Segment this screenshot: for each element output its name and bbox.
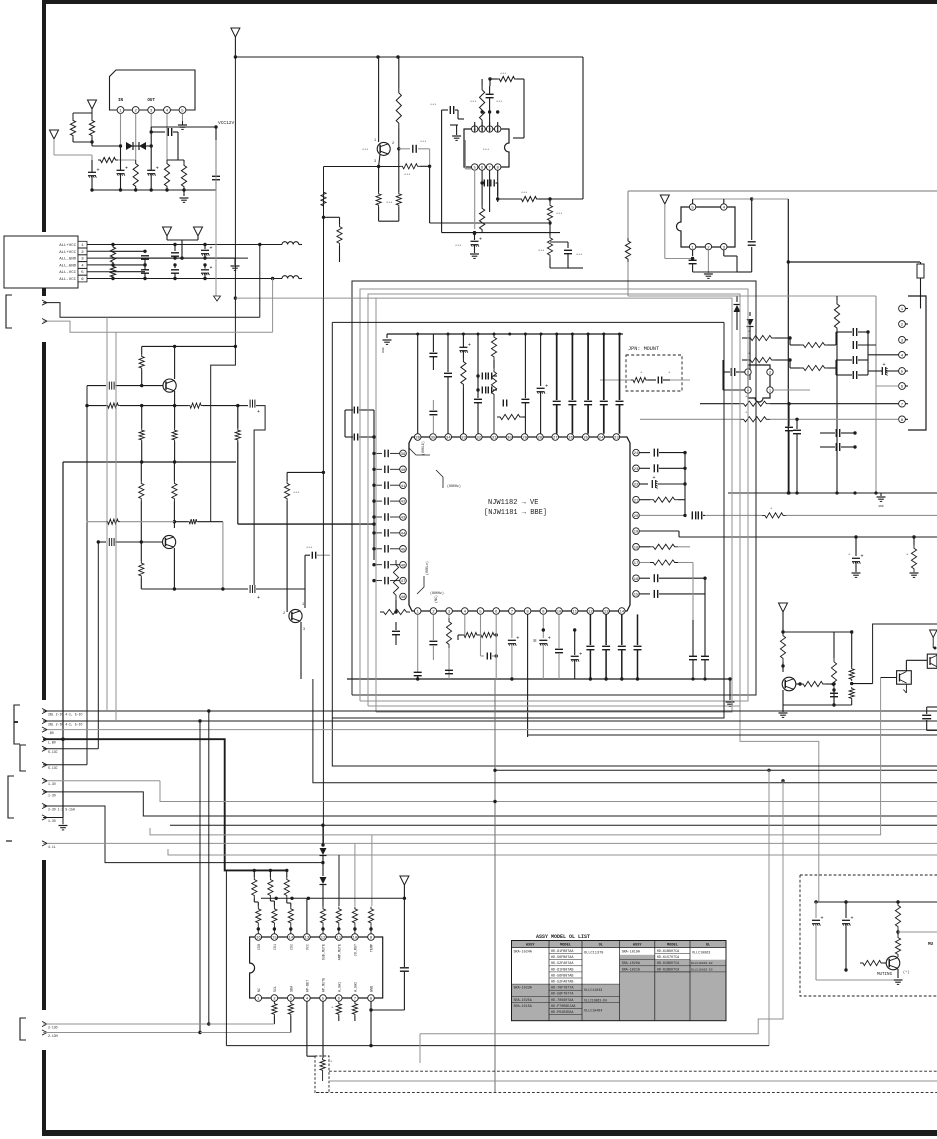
resistor R904 — [164, 160, 169, 190]
capacitor CL3 left pin — [374, 500, 382, 502]
capacitor CB14 — [637, 614, 639, 645]
wire pin8 down long — [527, 614, 529, 737]
ground triangle CN rail B — [194, 227, 203, 236]
pin 36 U1 top — [414, 434, 421, 441]
wire row 321 entry — [43, 321, 273, 332]
capacitor CL6 left pin — [374, 548, 382, 550]
wire q905 out right — [852, 683, 873, 685]
capacitor CML3 hatched — [97, 540, 100, 543]
pin 15 U801 CS1 — [271, 934, 278, 941]
wire u941 top — [692, 199, 694, 204]
pin 24 U1 right — [633, 449, 640, 456]
svg-text:OLLC10494: OLLC10494 — [584, 1010, 602, 1014]
wire row 1045 — [226, 1045, 769, 1047]
pin 31 U1 top — [491, 434, 498, 441]
wire fuse down — [920, 284, 922, 309]
svg-text:+: + — [257, 595, 260, 601]
wire gray 515 right — [705, 514, 762, 516]
wire 441 vertical — [441, 110, 443, 233]
wire q905 net — [782, 612, 784, 632]
wire long vertical down pin8 — [528, 734, 937, 736]
capacitor CML1 hatched — [87, 385, 106, 387]
connector bracket group B — [20, 745, 26, 771]
svg-text:+: + — [156, 166, 159, 172]
jumper dashed box bottom — [315, 1056, 329, 1093]
svg-text:28: 28 — [538, 437, 543, 441]
wire q904 emitter — [300, 622, 302, 679]
svg-text:3: 3 — [374, 160, 376, 164]
ground hatch r968 — [910, 572, 919, 574]
svg-text:***: *** — [362, 148, 368, 153]
svg-text:OLLC11379: OLLC11379 — [584, 952, 603, 956]
svg-text:45: 45 — [401, 548, 406, 552]
resistor R807 below A_SW2 — [354, 1000, 356, 1003]
svg-text:26: 26 — [568, 437, 573, 441]
svg-text:***: *** — [576, 253, 582, 258]
svg-text:GND: GND — [382, 347, 385, 353]
ground hatch c934 — [470, 253, 479, 255]
svg-text:S-13C: S-13C — [48, 766, 58, 770]
svg-text:11: 11 — [572, 611, 577, 615]
pin 6 CN941 — [899, 383, 906, 390]
svg-text:OL: OL — [706, 944, 710, 948]
electrolytic CB9 — [542, 614, 544, 638]
resistor RML5b column 174 down — [174, 406, 176, 429]
svg-text:SRA-1019A: SRA-1019A — [622, 951, 641, 955]
connector bracket group A — [14, 705, 20, 744]
capacitor C921 — [399, 148, 410, 150]
svg-text:.BO: .BO — [48, 731, 54, 735]
wire vcc row — [91, 142, 93, 146]
svg-text:***: *** — [293, 491, 299, 496]
pin 27 U1 top — [552, 434, 559, 441]
arrow connectors group D — [42, 1021, 47, 1026]
wire pin5 line — [876, 385, 899, 387]
pin 5 — [472, 164, 478, 170]
pin 5 U1 bottom — [477, 608, 484, 615]
svg-text:*: * — [330, 1060, 332, 1065]
wire drops top — [417, 334, 419, 434]
pin 19 U1 right — [633, 528, 640, 535]
wire pin6 — [495, 614, 497, 679]
svg-text:***: *** — [500, 72, 506, 77]
svg-text:***: *** — [556, 212, 562, 217]
electrolytic C982 — [845, 902, 847, 918]
svg-text:+: + — [210, 246, 213, 252]
svg-text:*: * — [745, 395, 747, 400]
svg-text:40: 40 — [401, 469, 406, 473]
pin 2 u951 — [767, 369, 773, 375]
svg-text:2-13O: 2-13O — [48, 1025, 58, 1029]
wire bottom rail — [347, 678, 731, 680]
svg-text:GND: GND — [371, 986, 375, 992]
pin 3 — [479, 126, 485, 132]
pin 25 U1 top — [582, 434, 589, 441]
resistor R972 — [831, 658, 836, 690]
svg-text:***: *** — [521, 191, 527, 196]
electrolytic C961 — [459, 346, 467, 348]
pin 3 U1 bottom — [446, 608, 453, 615]
svg-text:L.BO: L.BO — [48, 741, 56, 745]
svg-text:46: 46 — [401, 564, 406, 568]
svg-text:SCL: SCL — [274, 986, 278, 992]
pin 47 U1 left — [400, 577, 407, 584]
svg-text:OL: OL — [599, 944, 603, 948]
svg-text:13: 13 — [604, 611, 609, 615]
IC U951 body — [748, 365, 770, 402]
pin 4 — [164, 107, 171, 114]
svg-text:ALL_GND: ALL_GND — [59, 258, 76, 262]
svg-text:***: *** — [496, 100, 502, 105]
pin 13 U1 bottom — [603, 608, 610, 615]
wire cn941 stubs — [905, 308, 908, 310]
svg-text:27: 27 — [553, 437, 558, 441]
ground triangle CN rail A — [163, 227, 172, 236]
svg-text:2-13H: 2-13H — [48, 1034, 58, 1038]
pin 46 U1 left — [400, 561, 407, 568]
wire top rail — [235, 56, 583, 58]
resistor R951 inside — [631, 377, 648, 382]
wire pin5-8 down — [474, 170, 476, 229]
connector bracket group C — [8, 776, 14, 818]
svg-text:18: 18 — [634, 546, 639, 550]
pin 42 U1 left — [400, 498, 407, 505]
svg-text:CS1: CS1 — [274, 944, 278, 950]
capacitor C941 — [689, 259, 697, 261]
wire connector rows — [110, 244, 248, 246]
capacitor C904 electrolytic — [147, 169, 155, 171]
pin 1 U1 bottom — [414, 608, 421, 615]
electrolytic CML2 hatched — [250, 400, 255, 408]
capacitor C942 — [751, 199, 753, 240]
capacitor C947 electrolytic — [881, 367, 883, 375]
diode D901 — [126, 142, 133, 150]
wire loop rect 1 — [352, 281, 756, 695]
resistor row above U801 — [257, 925, 259, 933]
capacitor C912 — [143, 263, 146, 266]
resistor RML4 column 237 — [237, 406, 239, 429]
svg-text:+: + — [97, 168, 100, 174]
pin 16 U1 right — [633, 575, 640, 582]
wire pin5 — [480, 614, 482, 656]
capacitor C964 — [502, 400, 504, 407]
wire row 782 from 313 — [313, 679, 937, 783]
wire top rail of U1 — [387, 333, 623, 335]
wire verticals left bundle — [106, 317, 108, 711]
capacitor C969 — [432, 334, 434, 352]
pin 4 — [721, 204, 727, 210]
electrolytic C981 — [815, 902, 817, 918]
wire loop rect 5 — [332, 322, 724, 718]
ground rail regulator — [92, 189, 216, 191]
ground hatch q905 — [779, 712, 788, 714]
pin 34 U1 top — [445, 434, 452, 441]
diode D802 — [320, 877, 327, 884]
wire bias network — [91, 109, 93, 118]
wire r974 rail — [783, 704, 852, 706]
wire long vertical 495 — [494, 679, 496, 1092]
pin 41 U1 left — [400, 482, 407, 489]
svg-text:***: *** — [430, 103, 436, 108]
resistor R931 top — [490, 78, 497, 80]
capacitor C960 — [432, 400, 434, 410]
wire bottom row 589 — [141, 588, 248, 590]
svg-text:JPN: MOUNT: JPN: MOUNT — [628, 346, 659, 352]
svg-text:*: * — [668, 371, 670, 376]
pin 8 CN941 — [899, 416, 906, 423]
svg-text:GND: GND — [878, 505, 883, 508]
resistor RML1 — [141, 346, 143, 354]
resistor RML2 — [87, 405, 106, 407]
resistor R946 series 2 — [742, 359, 747, 361]
svg-text:20: 20 — [634, 515, 639, 519]
pin 26 U1 top — [567, 434, 574, 441]
pin 4 U1 bottom — [462, 608, 469, 615]
wire branch CO_RST — [338, 855, 340, 906]
wire branch AMP_MUTE gray — [354, 843, 356, 906]
upper resistors bank — [252, 877, 257, 898]
svg-text:12: 12 — [588, 611, 593, 615]
svg-text:21: 21 — [634, 499, 639, 503]
svg-text:24: 24 — [599, 437, 604, 441]
svg-text:*: * — [331, 1006, 333, 1011]
pin 43 U1 left — [400, 514, 407, 521]
svg-text:+: + — [883, 362, 886, 368]
svg-text:OLLC10863-D4: OLLC10863-D4 — [584, 998, 607, 1002]
pin 5 U801 HP_MUTE — [320, 995, 327, 1002]
svg-text:1-3O: 1-3O — [48, 782, 56, 786]
pin 45 U1 left — [400, 546, 407, 553]
svg-text:35: 35 — [431, 437, 436, 441]
wire pin2 gnd — [707, 250, 709, 273]
diode D941 — [736, 296, 738, 302]
ground symbol reg pin5 — [182, 121, 184, 125]
wire right verticals — [684, 453, 686, 516]
IC regulator IC901 — [110, 70, 196, 110]
svg-text:14: 14 — [619, 611, 624, 615]
wire q901 collector — [378, 57, 380, 142]
wire muting top rail — [816, 901, 937, 903]
svg-text:A_SW2: A_SW2 — [354, 982, 358, 992]
wire row 302 entry — [43, 303, 260, 318]
resistor R941 — [625, 238, 630, 262]
pin 4 — [472, 126, 478, 132]
wire staircase S2 — [767, 769, 770, 772]
svg-text:[NJW1181 → BBE]: [NJW1181 → BBE] — [484, 509, 547, 517]
resistor R945 — [800, 342, 828, 347]
pin 39 U1 left — [400, 450, 407, 457]
pin 7 U801 A_SW2 — [352, 995, 359, 1002]
wire q903 collector node — [173, 520, 176, 523]
resistor R964 — [493, 360, 495, 368]
wire VCC rail 898 — [261, 897, 405, 899]
pin 9 U801 TEMP — [368, 934, 375, 941]
pin 22 U1 right — [633, 481, 640, 488]
svg-text:43: 43 — [401, 517, 406, 521]
connector bracket left mid — [6, 295, 12, 328]
capacitor CR15b on x705 — [701, 655, 709, 657]
pin 44 U1 left — [400, 530, 407, 537]
resistor R944 series — [742, 337, 747, 339]
wire top gray rail right — [628, 190, 937, 192]
capacitor pair C963b — [481, 387, 483, 394]
svg-text:VCC12V: VCC12V — [218, 120, 235, 126]
pin 11 U801 AMP_MUTE — [336, 934, 343, 941]
ground triangle small left — [50, 130, 59, 139]
pin 8 — [495, 164, 501, 170]
transistor Q905 — [782, 677, 796, 691]
svg-text:2-3O 1-3 S-15H: 2-3O 1-3 S-15H — [48, 807, 75, 811]
resistor RR21 — [639, 499, 650, 501]
wire regulator pins down — [120, 114, 122, 147]
svg-text:OUT: OUT — [147, 99, 155, 103]
capacitor CL8 left pin — [374, 580, 382, 582]
wire bus row LBO thick — [43, 739, 287, 870]
wire q901 emitter — [379, 154, 380, 167]
capacitor CL2 left pin — [374, 484, 382, 486]
pin 2 CN941 — [899, 321, 906, 328]
resistor R926 — [378, 167, 380, 193]
svg-text:12: 12 — [321, 937, 326, 941]
capacitor C913 — [173, 243, 176, 246]
wire bus row 2BL a — [43, 710, 937, 712]
pin 6 U1 bottom — [493, 608, 500, 615]
pin 5 — [689, 204, 695, 210]
capacitor C932 — [442, 109, 448, 111]
wire pin19 — [639, 530, 679, 532]
capacitor CSer2 — [353, 434, 355, 441]
resistor RML12 — [285, 481, 290, 501]
resistor R973 base — [800, 681, 826, 686]
capacitor C934 electrolytic — [474, 233, 476, 240]
svg-text:(880LD): (880LD) — [421, 441, 425, 455]
wire q902 collector — [174, 346, 176, 379]
svg-text:39: 39 — [401, 453, 406, 457]
svg-text:32: 32 — [476, 437, 481, 441]
resistor R943 — [836, 296, 838, 300]
capacitor CB11 — [589, 614, 591, 645]
svg-text:ALL+VCC: ALL+VCC — [59, 244, 76, 248]
resistor R803 below SDA — [290, 1000, 292, 1003]
resistor R965 horizontal — [497, 414, 523, 419]
muting box dashed — [800, 875, 937, 996]
svg-text:+: + — [257, 409, 260, 415]
pin 20 U1 right — [633, 512, 640, 519]
IC U801 body — [250, 937, 383, 998]
svg-text:ASSY MODEL OL LIST: ASSY MODEL OL LIST — [536, 934, 590, 940]
svg-text:22: 22 — [634, 484, 639, 488]
capacitor CB12 — [605, 614, 607, 645]
wire gnd row to right — [110, 257, 235, 259]
ground hatch x63 — [59, 825, 68, 827]
svg-text:+: + — [861, 554, 864, 560]
capacitor CBx — [395, 622, 397, 630]
wire gray feed 298 — [235, 297, 376, 299]
connector CN901 body — [4, 236, 78, 288]
resistor R974a — [851, 632, 853, 667]
svg-text:1: 1 — [302, 603, 304, 607]
resistor R934 — [497, 199, 499, 202]
wire pin4 down — [464, 614, 466, 635]
capacitor C series top cluster — [447, 334, 449, 372]
svg-text:AMP_MUTE: AMP_MUTE — [338, 944, 342, 960]
svg-text:***: *** — [420, 140, 426, 145]
wire main vertical feed — [234, 37, 236, 57]
wire 429 down — [429, 166, 431, 223]
capacitor CB5 — [481, 655, 485, 657]
wire 222 vertical — [222, 522, 224, 589]
svg-text:19: 19 — [634, 531, 639, 535]
resistor R983 — [843, 940, 848, 963]
capacitor C950b — [796, 419, 798, 429]
pin 40 U1 left — [400, 466, 407, 473]
pin 9 U1 bottom — [540, 608, 547, 615]
wire pin8 right — [497, 183, 499, 199]
svg-text:34: 34 — [446, 437, 451, 441]
wire right feed — [752, 198, 789, 200]
svg-text:*: * — [745, 411, 747, 416]
wire dashed lines bottom — [329, 1070, 937, 1072]
wire 98 vertical — [97, 542, 99, 749]
wire pin5 gray feed — [464, 140, 466, 169]
wire cml2 right lead — [254, 406, 265, 585]
svg-text:+: + — [479, 237, 482, 243]
pin 3 U801 SDA — [288, 995, 295, 1002]
resistor R971 — [780, 632, 785, 662]
pin 1 — [689, 244, 695, 250]
svg-text:TEMP: TEMP — [371, 944, 375, 952]
pin 12 U1 bottom — [587, 608, 594, 615]
svg-text:2: 2 — [392, 142, 394, 146]
connector CN941 body — [908, 296, 926, 430]
wire vcc12 drop — [215, 140, 217, 296]
resistor R968 — [913, 537, 915, 545]
wire r981 mid — [897, 930, 899, 935]
svg-text:***: *** — [404, 173, 410, 178]
svg-text:ALL_GND: ALL_GND — [59, 264, 76, 268]
wire sdata lines down — [207, 1022, 210, 1025]
diode D801 — [322, 825, 324, 845]
resistor R903 — [133, 160, 138, 190]
capacitor CL5 left pin — [374, 532, 382, 534]
svg-text:+: + — [851, 916, 854, 922]
svg-text:*: * — [906, 553, 908, 558]
ground triangle q905 — [779, 603, 788, 612]
capacitor C944 — [852, 341, 854, 349]
wire feed 210 extend — [210, 475, 212, 522]
ground triangle left of regulator — [88, 100, 97, 109]
electrolytic CB10 — [574, 630, 576, 655]
wire bus row 2BL b — [43, 720, 937, 722]
svg-text:OLLC11043: OLLC11043 — [584, 989, 602, 993]
svg-text:1: 1 — [374, 139, 376, 143]
svg-text:17: 17 — [634, 562, 639, 566]
pin 14 U801 CS2 — [288, 934, 295, 941]
capacitor CL1 left pin — [374, 468, 382, 470]
pin 28 U1 top — [537, 434, 544, 441]
capacitor C935 — [567, 242, 569, 248]
wire bus row S-13C b — [43, 764, 87, 766]
pin 4 u951 — [745, 387, 751, 393]
fuse PS901 — [917, 264, 924, 278]
resistor R963 — [491, 334, 496, 360]
wire right rail 493 — [728, 492, 937, 494]
pin 14 U1 bottom — [619, 608, 626, 615]
pin 3 u951 — [745, 369, 751, 375]
wire branch TEMP gray — [371, 835, 373, 906]
capacitor C914 — [173, 263, 176, 266]
electrolytic CR22 — [639, 483, 648, 485]
